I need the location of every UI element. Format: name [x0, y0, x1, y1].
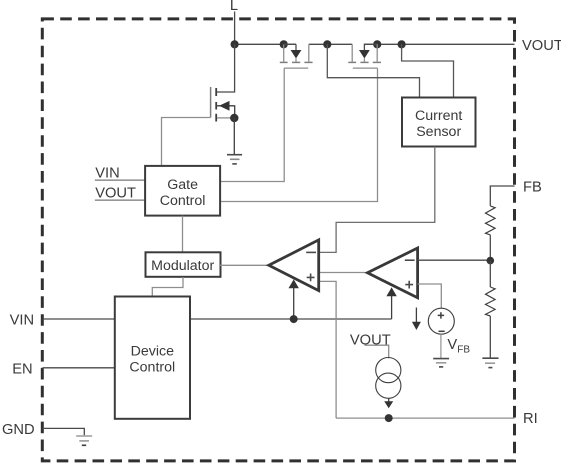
svg-text:Control: Control: [129, 359, 175, 375]
wire FB pin to divider: [490, 186, 514, 206]
node: rail/Q2 feed junction: [323, 40, 331, 48]
wire R2 to ground: [489, 316, 491, 358]
svg-text:VOUT: VOUT: [350, 332, 391, 348]
wire U2 inverting to FB divider: [418, 259, 491, 261]
svg-text:Gate: Gate: [167, 177, 198, 193]
wire rail to Current Sensor input B: [402, 44, 454, 97]
arrow into U1 from VIN: [293, 288, 295, 320]
op-amp U1 (comparator): [269, 240, 319, 291]
svg-text:VOUT: VOUT: [522, 38, 561, 54]
wire U1 lower stub to RI net: [319, 281, 336, 418]
block Device Control: [115, 297, 190, 419]
node: rail/Q2 right junction: [373, 40, 381, 48]
node: rail/current-sensor junction: [398, 40, 406, 48]
wire top rail VOUT net: [235, 43, 515, 45]
svg-text:V: V: [447, 337, 457, 353]
wire VOUT label to current source: [365, 345, 389, 358]
svg-text:VOUT: VOUT: [95, 185, 136, 201]
resistor R1: [486, 206, 496, 235]
Q3 body lead with arrow: [217, 106, 235, 118]
svg-text:Control: Control: [160, 193, 206, 209]
current source I1: [376, 358, 401, 399]
svg-text:VIN: VIN: [95, 165, 119, 181]
wire Q1 gate to Gate Control: [221, 68, 285, 181]
op-amp U2 (error amp): [368, 248, 418, 298]
wire Current Sensor to U1 inverting input: [319, 147, 435, 253]
node: L/rail junction: [231, 40, 239, 48]
wire VIN net: [43, 318, 392, 320]
arrow current source to RI net: [388, 398, 390, 401]
wire Q3 gate to Gate Control: [162, 118, 211, 166]
wire L pin into device: [234, 12, 236, 45]
wire Modulator to Device Control: [152, 277, 183, 296]
wire GND pin: [43, 428, 85, 435]
wire Q3 source to ground: [233, 118, 235, 154]
wire tap to R2: [489, 261, 491, 287]
Q3 channel segments: [215, 88, 217, 122]
wire U2 noninverting to VFB: [418, 284, 442, 308]
svg-text:RI: RI: [523, 411, 538, 427]
wire Gate Control to Modulator: [182, 216, 184, 252]
node: current source / RI junction: [385, 414, 393, 422]
transistor Q2 (top-right pass FET): [348, 44, 381, 68]
svg-text:Current: Current: [415, 108, 462, 124]
wire VIN to Gate Control: [95, 179, 145, 181]
node: rail/Q1 left junction: [280, 40, 288, 48]
Q3 source lead: [217, 117, 231, 119]
block Current Sensor: [402, 98, 476, 147]
block Modulator: [146, 252, 221, 276]
wire Q2 gate to Gate Control: [221, 68, 378, 201]
svg-text:Device: Device: [131, 343, 174, 359]
block Gate Control: [145, 166, 220, 216]
wire U1 noninverting to U2 output: [319, 272, 368, 274]
Q3 gate bar: [210, 87, 212, 118]
wire EN to Device Control: [43, 367, 116, 369]
ground (FB divider): [482, 358, 498, 367]
svg-text:Modulator: Modulator: [151, 258, 214, 274]
ground (Q3 source): [227, 155, 242, 164]
wire RI net: [336, 417, 514, 419]
svg-text:Sensor: Sensor: [416, 124, 461, 140]
ground (GND pin): [76, 436, 92, 445]
wire VFB to ground: [440, 334, 442, 358]
voltage source VFB: [428, 308, 454, 334]
wire VOUT to Gate Control: [95, 199, 145, 201]
svg-text:GND: GND: [2, 422, 35, 438]
wire rail to Current Sensor input A: [327, 44, 419, 97]
wire Modulator to comparator U1 output: [220, 264, 270, 266]
current direction arrow: [415, 308, 417, 323]
transistor Q3 (low-side FET): [211, 44, 239, 122]
wire R1 to tap: [489, 235, 491, 261]
transistor Q1 (top-left pass FET): [280, 44, 313, 68]
Q3 drain lead: [217, 44, 235, 92]
node: VIN/U1 arrow junction: [290, 315, 298, 323]
node: FB divider tap: [487, 257, 495, 265]
svg-text:FB: FB: [457, 345, 470, 356]
arrow into U2 from VIN: [391, 296, 393, 319]
svg-text:EN: EN: [12, 361, 32, 377]
svg-text:FB: FB: [523, 179, 542, 195]
resistor R2: [486, 287, 496, 316]
node: Q3 source junction: [230, 114, 238, 122]
svg-text:VIN: VIN: [10, 313, 34, 329]
ground (VFB): [433, 359, 449, 367]
